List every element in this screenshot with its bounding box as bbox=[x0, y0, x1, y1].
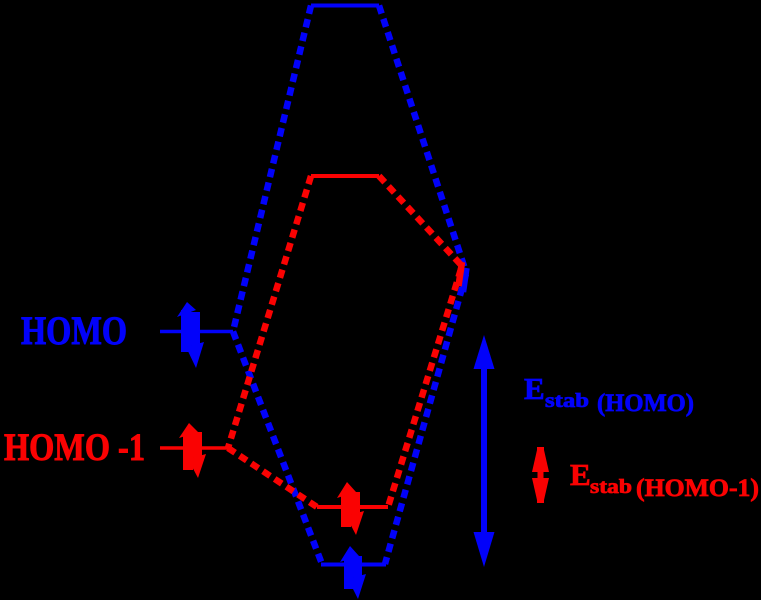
red dashed correlation wire: HOMO-1 level down to stabilized level bbox=[228, 448, 317, 507]
red dashed correlation wire: right vertex down to stabilized level bbox=[388, 269, 461, 507]
red top level line (HOMO -1 partner) bbox=[311, 174, 379, 178]
svg-text:E: E bbox=[570, 457, 591, 492]
svg-text:E: E bbox=[524, 371, 545, 406]
svg-text:HOMO: HOMO bbox=[21, 308, 127, 353]
blue dashed correlation wire: HOMO level down to stabilized level bbox=[233, 332, 322, 565]
node: blue right vertex bbox=[463, 268, 467, 292]
blue dashed correlation wire: top level to HOMO level bbox=[233, 6, 311, 332]
HOMO energy level line bbox=[160, 330, 233, 334]
blue E_stab(HOMO) double-headed measure arrow bbox=[474, 335, 495, 567]
red dashed correlation wire: top level to right vertex bbox=[379, 176, 462, 266]
blue dashed correlation wire: right vertex down to stabilized level bbox=[385, 274, 466, 564]
svg-text:(HOMO): (HOMO) bbox=[597, 390, 694, 417]
red stabilized bottom level line bbox=[317, 505, 388, 509]
svg-text:(HOMO-1): (HOMO-1) bbox=[636, 475, 759, 502]
E stab (HOMO) label bbox=[524, 371, 694, 417]
red E_stab(HOMO-1) double-headed measure arrow bbox=[532, 447, 549, 503]
svg-text:stab: stab bbox=[590, 476, 632, 498]
electron pair on red stabilized level: down arrow bbox=[346, 492, 364, 535]
electron pair on HOMO level: down arrow bbox=[186, 312, 204, 368]
electron pair on HOMO-1 level: up arrow bbox=[179, 423, 198, 470]
electron pair on HOMO-1 level: down arrow bbox=[188, 432, 206, 478]
blue stabilized bottom level line bbox=[321, 563, 386, 567]
blue top antibonding level line bbox=[311, 4, 379, 8]
svg-text:HOMO -1: HOMO -1 bbox=[4, 426, 145, 469]
blue dashed correlation wire: top level to right vertex bbox=[379, 6, 466, 273]
E stab (HOMO-1) label bbox=[570, 457, 759, 502]
electron pair on HOMO level: up arrow bbox=[177, 302, 196, 352]
electron pair on blue stabilized level: down arrow bbox=[348, 556, 366, 599]
electron pair on red stabilized level: up arrow bbox=[337, 482, 356, 527]
HOMO-1 energy level line bbox=[160, 446, 228, 450]
svg-text:stab: stab bbox=[545, 390, 589, 412]
node: red right vertex bbox=[459, 262, 463, 286]
electron pair on blue stabilized level: up arrow bbox=[340, 546, 359, 589]
red dashed correlation wire: top level to HOMO-1 level bbox=[228, 176, 311, 448]
